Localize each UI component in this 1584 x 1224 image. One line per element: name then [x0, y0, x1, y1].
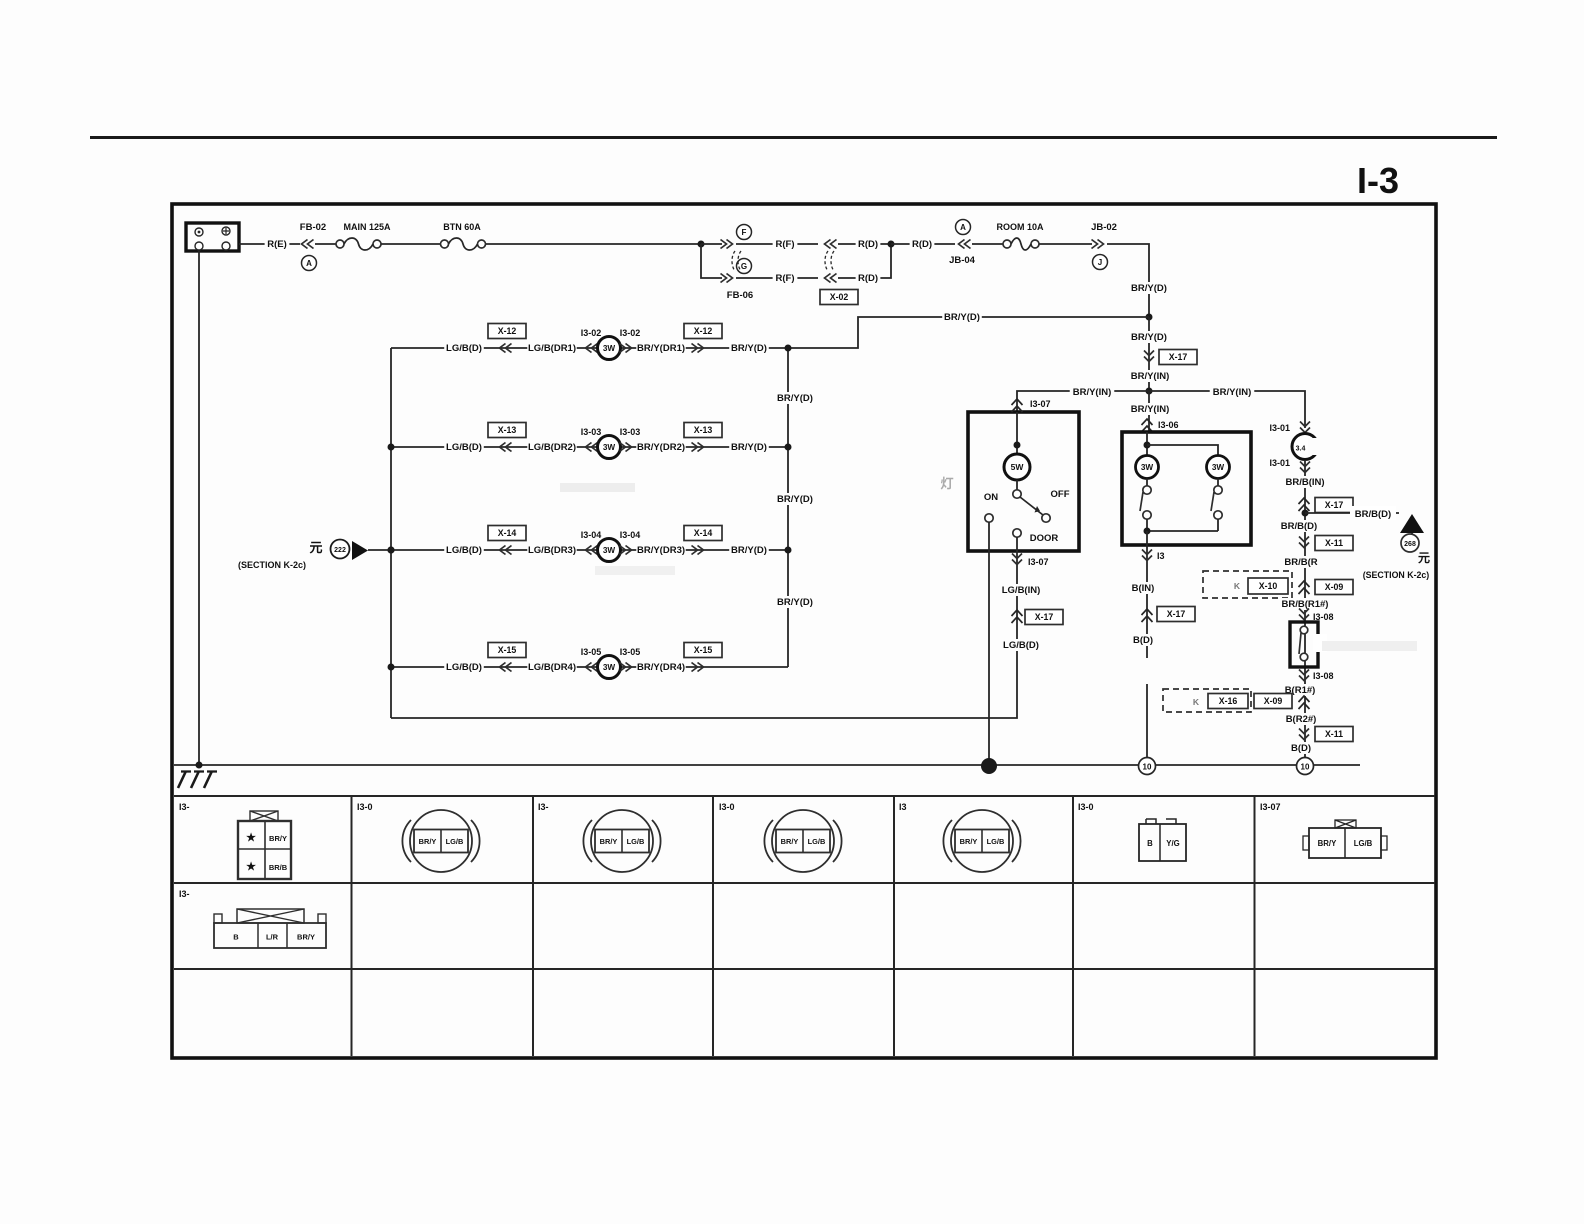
svg-text:B(D): B(D)	[1291, 743, 1311, 754]
svg-text:I3-05: I3-05	[581, 647, 602, 657]
ground terminal 10 left	[1139, 758, 1156, 775]
circle F	[737, 225, 752, 240]
wire BR/Y(D) jog to lamp bus	[788, 317, 1149, 348]
svg-text:I3: I3	[1157, 551, 1165, 561]
connector drawing round 5	[951, 810, 1013, 872]
DOOR contact	[1013, 529, 1021, 537]
label BR/Y(DR3)	[636, 544, 685, 556]
connector drawing round 4	[772, 810, 834, 872]
connector I3-07 bottom	[1012, 554, 1022, 565]
label BR/Y(IN) below tee	[1128, 403, 1173, 415]
wire drop to X-17	[1148, 317, 1150, 391]
svg-text:X-13: X-13	[498, 425, 517, 435]
wire into twin box	[1146, 432, 1148, 455]
connector drawing I3-01 battery side	[250, 811, 278, 821]
label R(D) top	[856, 238, 881, 250]
svg-text:LG/B(D): LG/B(D)	[446, 545, 482, 556]
label B(D) twin	[1131, 634, 1156, 646]
connector I3-02 right	[620, 344, 632, 353]
switch blade to OFF	[1020, 497, 1043, 515]
svg-text:I3-0: I3-0	[357, 802, 373, 812]
connector X-17 twin	[1142, 609, 1153, 622]
svg-text:G: G	[741, 262, 747, 271]
label BR/Y(IN) left	[1070, 386, 1115, 398]
svg-text:LG/B(D): LG/B(D)	[1003, 640, 1039, 651]
label LG/B(DR2)	[527, 441, 576, 453]
wire out of twin box	[1146, 531, 1148, 766]
svg-text:BR/Y(DR1): BR/Y(DR1)	[637, 343, 685, 354]
svg-text:B: B	[1147, 839, 1153, 848]
svg-text:LG/B(IN): LG/B(IN)	[1002, 585, 1041, 596]
svg-text:BR/Y(D): BR/Y(D)	[777, 393, 813, 404]
connector X-09 spot	[1299, 581, 1310, 594]
svg-text:I3-07: I3-07	[1028, 557, 1049, 567]
svg-text:X-09: X-09	[1264, 696, 1283, 706]
svg-text:I3-08: I3-08	[1313, 671, 1334, 681]
label box X-17 main	[1159, 350, 1197, 365]
label LG/B(D) DR2	[444, 441, 484, 453]
ON contact	[985, 514, 993, 522]
svg-text:BR/Y: BR/Y	[960, 837, 978, 846]
node room lamp	[1014, 442, 1021, 449]
wire tee to spot lamp	[1149, 391, 1305, 428]
wire G to X-02	[736, 277, 818, 279]
label box X-15 right	[684, 643, 722, 658]
right switch blade	[1211, 492, 1214, 511]
svg-text:OFF: OFF	[1051, 489, 1070, 500]
label BR/B(IN)	[1283, 476, 1328, 488]
ground junction big dot	[981, 758, 997, 774]
connector JB-02	[1092, 240, 1104, 249]
svg-text:I3-01: I3-01	[1269, 423, 1290, 433]
connector X-11 spot	[1299, 537, 1309, 548]
svg-text:3.4: 3.4	[1296, 446, 1306, 453]
svg-text:ON: ON	[984, 492, 998, 503]
svg-text:X-17: X-17	[1167, 609, 1186, 619]
left switch blade	[1140, 492, 1143, 511]
right 3W lamp	[1207, 456, 1230, 479]
svg-text:BR/Y(D): BR/Y(D)	[731, 343, 767, 354]
diagram outer border	[172, 204, 1436, 1058]
label BR/Y(D) DR1	[729, 342, 769, 354]
node BR/B(D) tee	[1302, 510, 1309, 517]
label box X-10	[1248, 578, 1288, 594]
svg-text:LG/B(DR3): LG/B(DR3)	[528, 545, 576, 556]
label box X-17 spot	[1315, 498, 1353, 513]
svg-text:B(R2#): B(R2#)	[1286, 714, 1317, 725]
room lamp bulb 5W	[1004, 454, 1030, 480]
svg-text:BR/Y(IN): BR/Y(IN)	[1131, 404, 1170, 415]
door lamp branch DR2	[391, 446, 788, 448]
connector FB-02	[302, 240, 314, 249]
connector X-09 lower	[1299, 696, 1310, 709]
wire X-02 bottom to merge	[838, 244, 891, 278]
svg-text:BR/B(R: BR/B(R	[1284, 557, 1317, 568]
svg-text:I3-04: I3-04	[581, 530, 602, 540]
svg-text:I3-05: I3-05	[620, 647, 641, 657]
connector X-12 left	[500, 344, 512, 353]
connector drawing I3-08 sill	[237, 909, 304, 923]
svg-text:3W: 3W	[1141, 463, 1154, 472]
right contact bottom	[1214, 511, 1222, 519]
svg-text:BR/B(D): BR/B(D)	[1355, 509, 1391, 520]
switch common contact	[1013, 490, 1021, 498]
wire X-02 top to merge	[838, 243, 891, 245]
svg-text:BR/B(IN): BR/B(IN)	[1285, 477, 1324, 488]
svg-text:I3: I3	[899, 802, 907, 812]
svg-text:X-14: X-14	[498, 528, 517, 538]
svg-text:JB-02: JB-02	[1091, 222, 1117, 233]
wire JB-04 to ROOM fuse	[972, 243, 1003, 245]
svg-text:10: 10	[1143, 763, 1152, 772]
label B(D) lower	[1289, 742, 1314, 754]
ground bus junction dot at battery	[196, 762, 203, 769]
wire tee down to twin lamp box	[1148, 391, 1150, 432]
connector X-13 left	[500, 443, 512, 452]
svg-text:I3-03: I3-03	[581, 427, 602, 437]
label BR/Y(D) below corner	[1129, 282, 1169, 294]
svg-text:BR/Y(D): BR/Y(D)	[731, 545, 767, 556]
svg-text:BR/Y(DR3): BR/Y(DR3)	[637, 545, 685, 556]
svg-text:X-12: X-12	[694, 326, 713, 336]
connector drawing round 2	[410, 810, 472, 872]
connector X-11 lower	[1299, 729, 1309, 740]
left contact to bottom bus	[1146, 519, 1148, 531]
left 3W lamp	[1136, 456, 1159, 479]
svg-text:R(E): R(E)	[267, 239, 287, 250]
wire spot lamp down	[1304, 460, 1306, 766]
svg-text:I3-07: I3-07	[1260, 802, 1281, 812]
room lamp unit box	[968, 412, 1079, 551]
svg-text:I-3: I-3	[1357, 160, 1399, 201]
connector drawing I3-07	[1335, 820, 1356, 828]
wire battery to FB-02	[239, 243, 300, 245]
svg-text:BR/Y: BR/Y	[269, 834, 287, 843]
lamp 3W DR3	[598, 539, 621, 562]
label BR/B(D) below tee	[1279, 520, 1319, 532]
svg-text:3W: 3W	[603, 443, 616, 452]
connector X-14 left	[500, 546, 512, 555]
svg-text:BR/Y(D): BR/Y(D)	[944, 312, 980, 323]
circle 268	[1401, 534, 1419, 552]
svg-text:BR/B(R1#): BR/B(R1#)	[1282, 599, 1329, 610]
label box X-17 twin	[1157, 607, 1195, 622]
svg-text:A: A	[306, 259, 312, 268]
svg-text:BR/Y(D): BR/Y(D)	[1131, 332, 1167, 343]
svg-text:I3-0: I3-0	[719, 802, 735, 812]
label LG/B(DR4)	[527, 661, 576, 673]
left lamp contact top	[1146, 479, 1148, 487]
wire F to X-02	[736, 243, 818, 245]
label box X-16	[1208, 694, 1248, 709]
label BR/Y(D) bus 3-4	[775, 596, 815, 608]
label BR/Y(D) jog	[942, 311, 982, 323]
label BR/Y(D) bus 2-3	[775, 493, 815, 505]
ground symbol	[178, 771, 212, 788]
label LG/B(D) DR4	[444, 661, 484, 673]
label box X-12 right	[684, 324, 722, 339]
label BR/B(R)	[1284, 556, 1319, 568]
svg-text:LG/B(D): LG/B(D)	[446, 343, 482, 354]
lamp 3W DR2	[598, 436, 621, 459]
svg-text:R(D): R(D)	[858, 273, 878, 284]
node main drop junction	[1146, 314, 1153, 321]
svg-text:LG/B: LG/B	[1354, 839, 1373, 848]
label BR/Y(D) DR3	[729, 544, 769, 556]
svg-text:I3-07: I3-07	[1030, 399, 1051, 409]
svg-text:(SECTION K-2c): (SECTION K-2c)	[238, 560, 306, 570]
connector I3-07 top	[1012, 399, 1023, 412]
wire ROOM fuse to JB-02	[1039, 243, 1092, 245]
connector X-17 main	[1144, 351, 1154, 362]
svg-text:X-17: X-17	[1169, 352, 1188, 362]
right lamp contact top	[1217, 479, 1219, 487]
connector X-12 right	[692, 344, 704, 353]
circle J below JB-02	[1093, 255, 1108, 270]
door lamp branch DR1	[391, 347, 788, 349]
label LG/B(DR3)	[527, 544, 576, 556]
svg-text:LG/B: LG/B	[987, 837, 1005, 846]
svg-text:LG/B: LG/B	[808, 837, 826, 846]
label LG/B(DR1)	[527, 342, 576, 354]
connector I3-04 right	[620, 546, 632, 555]
battery	[186, 223, 239, 251]
connector X-13 right	[692, 443, 704, 452]
svg-text:B(D): B(D)	[1133, 635, 1153, 646]
svg-text:R(F): R(F)	[776, 239, 795, 250]
svg-text:I3-06: I3-06	[1158, 420, 1179, 430]
svg-text:5W: 5W	[1011, 462, 1025, 472]
twin lamp unit box	[1122, 432, 1251, 545]
svg-text:I3-0: I3-0	[1078, 802, 1094, 812]
svg-text:I3-: I3-	[538, 802, 549, 812]
dashed highlight box X-16	[1163, 689, 1251, 712]
svg-text:X-17: X-17	[1325, 500, 1344, 510]
svg-text:B: B	[233, 933, 239, 942]
connector FB-06 row F	[721, 240, 733, 249]
fuse BTN 60A	[441, 240, 449, 248]
svg-text:BR/Y(DR2): BR/Y(DR2)	[637, 442, 685, 453]
svg-text:B(IN): B(IN)	[1132, 583, 1155, 594]
dashed bracket X-02	[825, 251, 828, 271]
svg-text:DOOR: DOOR	[1030, 533, 1059, 544]
label BR/Y(D)	[1129, 331, 1169, 343]
label BR/Y(DR4)	[636, 661, 685, 673]
svg-text:BR/Y(D): BR/Y(D)	[777, 494, 813, 505]
svg-text:BR/Y(D): BR/Y(D)	[1131, 283, 1167, 294]
svg-text:BR/Y: BR/Y	[1318, 839, 1337, 848]
svg-text:I3-03: I3-03	[620, 427, 641, 437]
connector X-15 right	[692, 663, 704, 672]
svg-text:LG/B(D): LG/B(D)	[446, 442, 482, 453]
twin box bottom bus	[1147, 530, 1218, 532]
connector I3-08 bottom	[1299, 670, 1309, 681]
svg-text:JB-04: JB-04	[949, 255, 976, 266]
svg-text:10: 10	[1301, 763, 1310, 772]
wire FB-02 to MAIN fuse	[315, 243, 337, 245]
door switch R blade	[1299, 633, 1301, 654]
circle A above JB-04	[956, 220, 971, 235]
svg-text:R(D): R(D)	[912, 239, 932, 250]
svg-text:★: ★	[246, 832, 256, 844]
svg-text:X-09: X-09	[1325, 582, 1344, 592]
svg-text:L/R: L/R	[266, 933, 279, 942]
connector X-14 right	[692, 546, 704, 555]
svg-text:X-10: X-10	[1259, 581, 1278, 591]
svg-text:BR/Y(IN): BR/Y(IN)	[1073, 387, 1112, 398]
label LG/B(D) DR3	[444, 544, 484, 556]
svg-text:X-15: X-15	[694, 645, 713, 655]
wire DOOR contact down	[1016, 537, 1018, 656]
bottom return wire of lamp loop	[391, 656, 1017, 718]
label box X-17 room	[1025, 610, 1063, 625]
svg-text:BR/Y(D): BR/Y(D)	[731, 442, 767, 453]
label BR/Y(D) bus 1-2	[775, 392, 815, 404]
svg-text:I3-01: I3-01	[1269, 458, 1290, 468]
svg-text:J: J	[1098, 258, 1102, 267]
svg-text:X-11: X-11	[1325, 538, 1343, 548]
svg-text:元: 元	[309, 540, 322, 555]
svg-text:3W: 3W	[603, 663, 616, 672]
label B(R1#)	[1283, 684, 1318, 696]
label BR/Y(IN)	[1128, 370, 1173, 382]
label B(R2#)	[1284, 713, 1319, 725]
label box X-09 spot	[1315, 580, 1353, 595]
circle A below FB-02	[302, 256, 317, 271]
connector drawing round 3	[591, 810, 653, 872]
junction node FB-06 split	[698, 241, 705, 248]
svg-text:LG/B(DR4): LG/B(DR4)	[528, 662, 576, 673]
wire tee to room lamp	[1017, 391, 1149, 412]
label box X-12 left	[488, 324, 526, 339]
svg-text:MAIN 125A: MAIN 125A	[343, 222, 391, 232]
svg-text:(SECTION K-2c): (SECTION K-2c)	[1363, 570, 1430, 580]
connector I3-06 bottom	[1142, 550, 1152, 561]
connector X-17 room	[1012, 610, 1023, 623]
door switch R box	[1290, 622, 1318, 667]
label box X-15 left	[488, 643, 526, 658]
right contact to bottom bus	[1217, 519, 1219, 531]
svg-text:X-16: X-16	[1219, 696, 1238, 706]
connector I3-08 top	[1299, 609, 1309, 620]
svg-text:X-11: X-11	[1325, 729, 1343, 739]
svg-text:FB-06: FB-06	[727, 290, 753, 301]
label BR/Y(D) DR2	[729, 441, 769, 453]
svg-text:BR/Y(D): BR/Y(D)	[777, 597, 813, 608]
svg-text:K: K	[1193, 697, 1200, 707]
wire ON contact to ground	[988, 522, 990, 766]
svg-text:268: 268	[1404, 541, 1416, 548]
svg-text:BR/Y(IN): BR/Y(IN)	[1131, 371, 1170, 382]
wire to right lamp	[1147, 445, 1218, 455]
svg-text:BR/Y(DR4): BR/Y(DR4)	[637, 662, 685, 673]
svg-text:I3-02: I3-02	[620, 328, 641, 338]
svg-text:LG/B(DR2): LG/B(DR2)	[528, 442, 576, 453]
connector I3-01 top	[1300, 422, 1310, 433]
svg-text:222: 222	[334, 547, 346, 554]
lamp 3W DR1	[598, 337, 621, 360]
svg-text:LG/B(D): LG/B(D)	[446, 662, 482, 673]
svg-text:K: K	[1234, 581, 1241, 591]
merge junction	[888, 241, 895, 248]
wire JB-02 to main drop	[1107, 244, 1149, 317]
connector I3-03 left	[586, 443, 598, 452]
svg-text:I3-04: I3-04	[620, 530, 641, 540]
connector X-02 row bottom	[825, 274, 837, 283]
svg-text:BR/Y: BR/Y	[600, 837, 618, 846]
connector FB-06 row G	[721, 274, 733, 283]
wire battery to ground bus	[198, 251, 200, 765]
door switch R top contact	[1300, 626, 1308, 634]
connector I3-06	[1142, 419, 1153, 432]
right lamp bus	[787, 348, 789, 667]
svg-text:元: 元	[1418, 551, 1430, 565]
svg-text:X-17: X-17	[1035, 612, 1054, 622]
label LG/B(IN)	[999, 584, 1044, 596]
wire BTN to junction	[486, 243, 701, 245]
svg-text:BR/Y: BR/Y	[781, 837, 799, 846]
wire into room lamp	[1016, 412, 1018, 455]
svg-text:I3-02: I3-02	[581, 328, 602, 338]
svg-text:LG/B: LG/B	[627, 837, 645, 846]
svg-text:BR/B: BR/B	[269, 863, 288, 872]
left contact bottom	[1143, 511, 1151, 519]
svg-text:BR/B(D): BR/B(D)	[1281, 521, 1317, 532]
svg-text:BR/Y(IN): BR/Y(IN)	[1213, 387, 1252, 398]
svg-text:BTN 60A: BTN 60A	[443, 222, 481, 232]
dashed highlight box X-10	[1203, 571, 1292, 598]
connector I3-02 left	[586, 344, 598, 353]
label box X-13 right	[684, 423, 722, 438]
label LG/B(D) DR1	[444, 342, 484, 354]
svg-text:I3-: I3-	[179, 802, 190, 812]
ground bus	[174, 764, 1360, 766]
svg-text:3W: 3W	[603, 344, 616, 353]
label BR/B(D) inline	[1350, 506, 1396, 520]
svg-text:I3-: I3-	[179, 889, 190, 899]
svg-text:A: A	[960, 223, 966, 232]
door switch R bottom contact	[1300, 653, 1308, 661]
label box X-02	[820, 290, 858, 305]
connector I3-05 left	[586, 663, 598, 672]
lamp 3W DR4	[598, 656, 621, 679]
svg-text:R(F): R(F)	[776, 273, 795, 284]
svg-text:X-15: X-15	[498, 645, 517, 655]
label BR/Y(DR1)	[636, 342, 685, 354]
connector I3-03 right	[620, 443, 632, 452]
label R(D) bottom	[856, 272, 881, 284]
svg-text:X-14: X-14	[694, 528, 713, 538]
label box X-11 lower	[1315, 727, 1353, 742]
connector JB-04	[959, 240, 971, 249]
svg-text:BR/Y: BR/Y	[297, 933, 315, 942]
svg-text:R(D): R(D)	[858, 239, 878, 250]
connector I3-01 bottom	[1300, 462, 1310, 473]
svg-text:Y/G: Y/G	[1166, 839, 1179, 848]
fuse ROOM 10A	[1003, 240, 1011, 248]
svg-text:FB-02: FB-02	[300, 222, 326, 233]
svg-text:X-13: X-13	[694, 425, 713, 435]
spot lamp 3.4W	[1292, 434, 1318, 460]
label BR/B(R1#)	[1280, 598, 1329, 610]
label R(F) bottom	[773, 272, 798, 284]
svg-text:灯: 灯	[940, 476, 953, 491]
label box X-14 left	[488, 526, 526, 541]
connector X-15 left	[500, 663, 512, 672]
wire bulb to switch common	[1016, 480, 1018, 490]
connector I3-05 right	[620, 663, 632, 672]
wire MAIN to BTN fuse	[381, 243, 441, 245]
